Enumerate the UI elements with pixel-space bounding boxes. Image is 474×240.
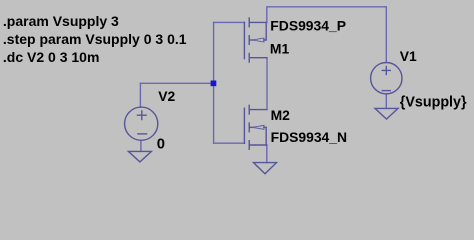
ground below V1: [375, 108, 398, 119]
svg-text:FDS9934_P: FDS9934_P: [270, 18, 346, 34]
voltage source V1: [371, 62, 402, 93]
svg-text:{Vsupply}: {Vsupply}: [400, 95, 467, 111]
junction node gate net: [211, 81, 217, 87]
svg-text:.dc V2 0 3 10m: .dc V2 0 3 10m: [3, 49, 100, 65]
svg-text:0: 0: [157, 136, 165, 152]
wire gate net to M1 gate: [214, 21, 245, 23]
voltage source V2: [125, 107, 158, 140]
wire V2 plus to junction: [140, 82, 213, 84]
wire V2 minus to ground: [140, 140, 142, 151]
wire gate net to M2 gate: [214, 142, 245, 144]
transistor M2 NMOS FDS9934_N: [244, 105, 266, 149]
wire drain net M1 to M2: [266, 58, 268, 110]
wire gate net vertical: [213, 22, 215, 143]
wire V2 top: [139, 83, 141, 107]
svg-text:V1: V1: [400, 48, 417, 64]
ground below M2: [254, 163, 277, 174]
wire V1 minus to ground: [385, 94, 387, 109]
transistor M1 PMOS FDS9934_P: [244, 18, 266, 62]
wire M2 source to ground: [266, 145, 268, 163]
svg-text:M1: M1: [270, 40, 290, 56]
svg-text:FDS9934_N: FDS9934_N: [271, 129, 347, 145]
ground below V2: [128, 151, 151, 162]
svg-text:V2: V2: [158, 88, 175, 104]
wire top supply: M1 source pin up, right to V1 top: [267, 7, 387, 63]
svg-text:M2: M2: [271, 107, 291, 123]
svg-text:.param Vsupply 3: .param Vsupply 3: [3, 13, 119, 29]
svg-text:.step param Vsupply 0 3 0.1: .step param Vsupply 0 3 0.1: [3, 31, 187, 47]
